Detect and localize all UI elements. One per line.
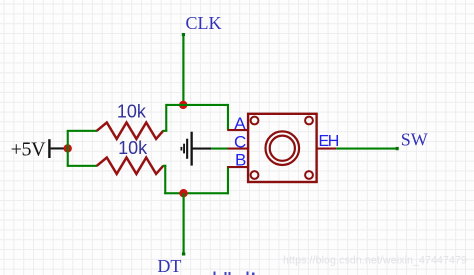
- svg-text:DT: DT: [157, 256, 181, 275]
- wire top horizontal bus: [166, 104, 228, 106]
- mount hole bottom-right: [305, 171, 313, 179]
- wire top resistor row right: [163, 130, 168, 132]
- wire top-left elbow vertical: [165, 104, 167, 131]
- ground symbol: [181, 132, 212, 166]
- wire pin-B riser vertical: [227, 166, 229, 194]
- svg-text:SW: SW: [401, 130, 428, 150]
- cropped caption letter tops at bottom edge: [214, 272, 255, 275]
- resistor R1: [97, 123, 163, 139]
- pin EH: [317, 148, 336, 150]
- junction bottom (DT node): [179, 189, 187, 197]
- svg-text:A: A: [234, 114, 246, 133]
- svg-text:C: C: [234, 133, 246, 152]
- junction left (+5V node): [63, 144, 71, 152]
- svg-text:EH: EH: [319, 133, 339, 150]
- wire top resistor row left: [67, 130, 98, 132]
- wire CLK vertical: [182, 33, 185, 105]
- junction top (CLK node): [179, 101, 187, 109]
- shaft inner circle: [270, 136, 295, 161]
- wire left vertical between resistor rows: [67, 131, 69, 166]
- wire pin-A drop vertical: [227, 104, 229, 131]
- pin C: [228, 148, 248, 150]
- wire bottom resistor row left: [67, 165, 98, 167]
- svg-text:B: B: [235, 150, 246, 169]
- svg-text:10k: 10k: [118, 138, 148, 158]
- wire bottom resistor row right: [163, 165, 167, 167]
- wire bottom-left elbow vertical: [164, 165, 166, 194]
- mount hole top-left: [251, 117, 259, 125]
- svg-text:CLK: CLK: [186, 13, 222, 33]
- wire bottom horizontal bus: [164, 192, 229, 194]
- resistor R2: [97, 158, 163, 174]
- wire ground to pin C: [211, 148, 227, 150]
- shaft outer circle: [266, 131, 300, 165]
- mount hole bottom-left: [251, 171, 259, 179]
- wire SW horizontal: [336, 147, 399, 150]
- mount hole top-right: [305, 117, 313, 125]
- svg-text:10k: 10k: [117, 102, 147, 122]
- power port +5V: [11, 139, 65, 161]
- encoder switch body (U1): [248, 114, 317, 182]
- pin A: [228, 129, 248, 131]
- pin B: [228, 166, 248, 168]
- svg-text:https://blog.csdn.net/weixin_4: https://blog.csdn.net/weixin_47447479: [283, 255, 467, 267]
- svg-text:+5V: +5V: [11, 139, 46, 161]
- wire DT vertical: [182, 193, 185, 255]
